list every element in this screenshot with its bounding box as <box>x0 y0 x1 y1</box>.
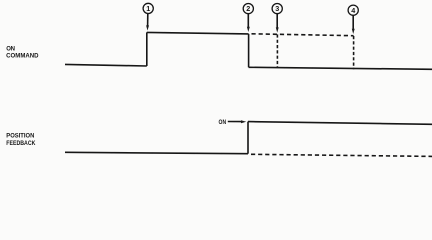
svg-text:3: 3 <box>275 4 279 13</box>
wire dashed low hold segment <box>251 154 432 156</box>
wire dashed vertical at event 4 <box>353 36 355 69</box>
svg-text:1: 1 <box>146 4 150 13</box>
node 1 callout circle <box>143 3 153 30</box>
node 4 callout circle <box>348 5 358 34</box>
wire ON COMMAND rising edge <box>146 32 148 66</box>
wire dashed high hold segment <box>252 34 354 36</box>
wire POSITION FEEDBACK low segment <box>65 152 248 153</box>
svg-text:COMMAND: COMMAND <box>6 53 39 59</box>
label ON COMMAND <box>6 46 39 59</box>
wire ON COMMAND low segment right <box>249 67 432 69</box>
wire POSITION FEEDBACK rising edge <box>247 122 249 154</box>
label ON with arrow <box>219 120 247 126</box>
svg-text:FEEDBACK: FEEDBACK <box>6 141 36 147</box>
wire ON COMMAND falling edge <box>248 34 250 67</box>
svg-text:ON: ON <box>219 120 227 126</box>
svg-text:ON: ON <box>6 46 15 52</box>
node 2 callout circle <box>243 4 253 33</box>
svg-text:POSITION: POSITION <box>6 133 34 139</box>
node 3 callout circle <box>272 4 282 33</box>
wire ON COMMAND high segment <box>147 32 249 34</box>
wire dashed vertical at event 3 <box>276 34 278 68</box>
svg-text:4: 4 <box>351 6 355 15</box>
label POSITION FEEDBACK <box>6 133 36 147</box>
svg-text:2: 2 <box>246 4 250 13</box>
wire POSITION FEEDBACK high segment <box>248 122 432 125</box>
wire ON COMMAND low segment left <box>65 64 147 66</box>
